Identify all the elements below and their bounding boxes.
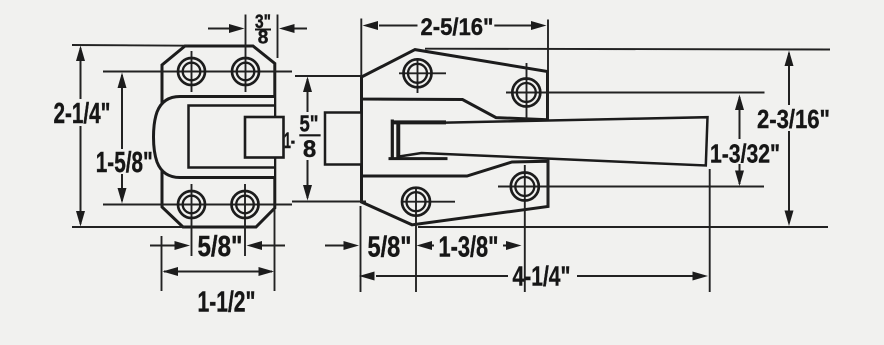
svg-text:1-1/2": 1-1/2" <box>198 287 256 319</box>
svg-text:1-3/8": 1-3/8" <box>439 232 499 264</box>
svg-text:2-5/16": 2-5/16" <box>421 14 494 41</box>
svg-text:8: 8 <box>303 136 316 163</box>
svg-text:2-3/16": 2-3/16" <box>757 104 830 134</box>
svg-text:1-3/32": 1-3/32" <box>710 139 780 169</box>
svg-text:2-1/4": 2-1/4" <box>54 98 111 130</box>
svg-text:4-1/4": 4-1/4" <box>513 261 571 292</box>
svg-text:5/8": 5/8" <box>198 231 243 263</box>
svg-text:1-5/8": 1-5/8" <box>96 147 153 179</box>
svg-text:1-: 1- <box>284 128 295 153</box>
svg-text:8: 8 <box>258 28 269 49</box>
svg-text:5/8": 5/8" <box>368 232 412 264</box>
svg-text:5": 5" <box>300 111 319 137</box>
